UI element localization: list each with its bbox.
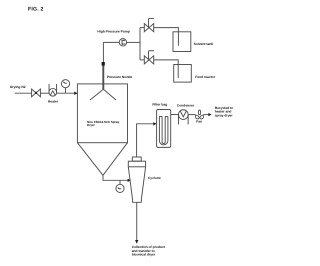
wire cone tip to cyclone <box>103 175 129 180</box>
fan <box>195 110 205 120</box>
filter bag U tube <box>159 117 168 145</box>
valve V2 (solvent) <box>144 18 154 31</box>
svg-text:Drying N2: Drying N2 <box>10 85 26 89</box>
wire fan to recycle arrow <box>203 114 208 116</box>
nozzle fitting (black block) <box>102 62 105 66</box>
svg-text:biconical dryer: biconical dryer <box>132 252 156 256</box>
svg-text:Pressure Nozzle: Pressure Nozzle <box>107 75 133 79</box>
pressure gauge G1 <box>61 80 69 94</box>
valve V3 (feed) <box>144 51 154 64</box>
nozzle feed line <box>102 42 104 62</box>
wire valve V3 to feed reactor <box>154 60 179 78</box>
condenser <box>178 110 188 125</box>
svg-text:Cyclone: Cyclone <box>148 176 161 180</box>
arrow collection <box>135 240 138 244</box>
svg-text:Solvent tank: Solvent tank <box>194 42 214 46</box>
spray dryer cone <box>77 143 127 176</box>
wire branch to valve V3 <box>140 59 144 61</box>
spray dryer chamber <box>77 84 127 143</box>
arrow into filter bag <box>153 122 156 125</box>
wire heater to dryer <box>57 92 77 94</box>
wire filter bag to condenser <box>171 114 179 116</box>
svg-text:Filter bag: Filter bag <box>152 102 167 106</box>
wire cyclone bottom to collection <box>136 202 138 240</box>
wire pump to branch <box>127 41 140 43</box>
arrow into cyclone <box>128 179 131 182</box>
feed reactor <box>174 65 192 83</box>
solvent tank <box>173 32 191 52</box>
svg-text:Fan: Fan <box>196 120 202 124</box>
wire branch vertical <box>139 28 141 60</box>
svg-text:spray dryer: spray dryer <box>215 113 234 117</box>
svg-text:High Pressure Pump: High Pressure Pump <box>97 29 129 33</box>
arrow into dryer <box>74 92 77 95</box>
wire valve to heater <box>40 92 49 94</box>
svg-text:Feed reactor: Feed reactor <box>195 75 216 79</box>
pressure gauge G2 <box>116 180 124 192</box>
arrow recycle <box>208 113 211 116</box>
valve V1 (N2 inlet valve) <box>32 89 41 97</box>
high pressure pump P1 <box>119 39 126 46</box>
wire nozzle line to pump <box>103 41 119 43</box>
wire valve V2 to solvent tank <box>154 28 179 46</box>
svg-text:FIG. 2: FIG. 2 <box>28 6 44 12</box>
wire branch to valve V2 <box>140 27 144 29</box>
heater <box>49 84 57 96</box>
spray cone <box>90 89 116 100</box>
svg-text:Condenser: Condenser <box>177 104 195 108</box>
svg-text:Heater: Heater <box>48 99 59 103</box>
wire N2 inlet line <box>15 92 32 94</box>
cyclone <box>128 157 145 202</box>
wire condenser to fan <box>188 114 195 116</box>
filter bag housing <box>157 110 171 148</box>
svg-text:Dryer: Dryer <box>87 123 96 127</box>
wire cyclone top to filter bag <box>137 124 154 157</box>
